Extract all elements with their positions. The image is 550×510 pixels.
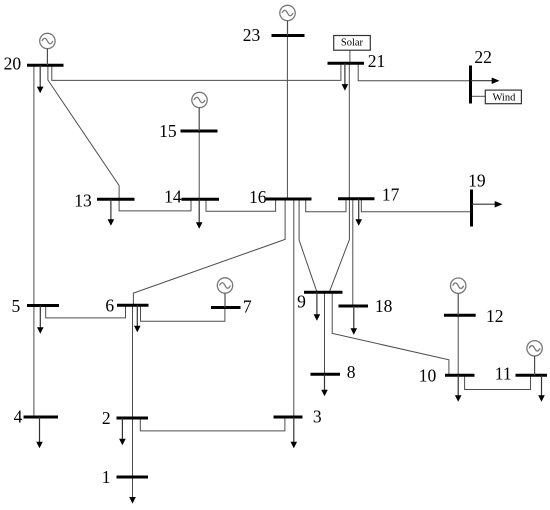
generator G11 [527,341,542,356]
bus 20 [27,64,64,67]
svg-text:10: 10 [419,365,437,385]
wire 16-3 [293,199,295,417]
svg-text:13: 13 [74,190,92,210]
svg-text:Solar: Solar [341,37,364,48]
wire 9-8 [324,292,326,374]
wire 16-6 [133,199,285,305]
wire 12-10 [457,315,459,375]
load arrow bus 11 [538,375,545,402]
wire 13-14 [119,199,191,211]
generator G15 [192,92,207,107]
load arrow bus 2 [119,418,126,445]
wire 17-9 [329,199,349,292]
generator G23 [280,5,295,20]
bus 9 [304,291,343,294]
bus 22 [469,66,472,104]
svg-text:15: 15 [159,121,177,141]
bus 4 [24,416,59,419]
load arrow bus 4 [36,417,43,448]
svg-text:11: 11 [495,364,512,384]
wire wind stub [471,95,486,97]
svg-text:Wind: Wind [492,92,516,103]
wire 6-2-1 [132,305,134,497]
bus 8 [311,373,341,376]
load arrow bus 17 [355,199,362,226]
load arrow bus 6 [134,305,141,332]
svg-text:20: 20 [4,54,22,74]
load arrow bus 1 [129,497,136,504]
load arrow bus 10 [455,375,462,402]
bus 23 [272,34,305,37]
wire 20-13 [48,65,119,199]
generator G12 [451,278,466,293]
load arrow bus 22 [471,78,500,85]
bus 21 [328,62,365,65]
load arrow bus 18 [351,306,358,335]
bus 13 [97,198,135,201]
wire 23-16 [286,36,288,200]
wire 10-11 [465,375,531,389]
bus 19 [470,190,473,227]
svg-text:23: 23 [243,25,261,45]
generator G7 [217,278,232,293]
wire 9-10 [332,292,449,375]
wire 21-22 [358,63,470,80]
wire 21-17 [348,63,350,199]
wire 17-18 [352,199,354,306]
bus 10 [445,374,475,377]
wire 20-21 [52,63,341,80]
svg-text:18: 18 [375,296,393,316]
svg-text:16: 16 [249,187,267,207]
Wind box [485,90,521,104]
bus 5 [27,304,59,307]
bus 7 [211,306,241,309]
svg-text:17: 17 [382,184,400,204]
svg-text:9: 9 [297,292,306,312]
svg-text:2: 2 [102,408,111,428]
load arrow bus 9 [314,292,321,321]
bus 16 [266,198,312,201]
generator G20 [40,33,55,48]
Solar box [334,36,371,51]
svg-text:8: 8 [347,362,356,382]
bus 15 [181,130,218,133]
svg-text:21: 21 [368,51,386,71]
load arrow bus 21 [342,63,349,90]
svg-text:7: 7 [243,297,252,317]
bus 14 [182,198,220,201]
load arrow bus 3 [291,417,298,448]
wire solar stub [349,50,351,63]
svg-text:3: 3 [313,406,322,426]
bus 3 [274,416,303,419]
wire 16-9 [299,199,317,292]
wire 5-4 [33,306,35,417]
bus 6 [117,304,149,307]
svg-text:1: 1 [102,467,111,487]
svg-text:4: 4 [14,406,23,426]
wire 17-19 [361,199,471,212]
bus 1 [117,476,149,479]
wire 5-6 [46,305,126,318]
load arrow bus 14 [196,199,203,229]
svg-text:22: 22 [474,47,492,67]
bus 2 [117,417,149,420]
bus 11 [516,374,548,377]
wire 16-17 [306,199,346,212]
svg-text:6: 6 [105,296,114,316]
bus 18 [339,305,369,308]
load arrow bus 8 [321,374,328,396]
svg-text:14: 14 [164,187,182,207]
load arrow bus 13 [108,199,115,226]
wire 6-7 [141,305,225,321]
svg-text:5: 5 [11,296,20,316]
svg-text:19: 19 [468,171,486,191]
wire 20-5 [33,65,35,305]
wire 14-16 [206,199,276,211]
load arrow bus 19 [472,201,503,208]
load arrow bus 5 [37,306,44,334]
wire 15-14 [198,131,200,199]
bus 12 [444,314,476,317]
load arrow bus 20 [37,65,44,93]
svg-text:12: 12 [486,306,504,326]
wire 2-3 [140,417,285,431]
bus 17 [338,197,375,200]
